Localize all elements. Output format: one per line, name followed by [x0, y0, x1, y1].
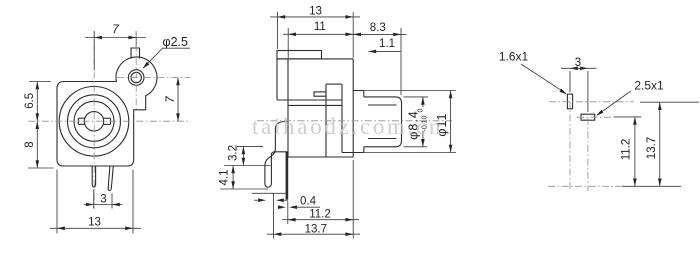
svg-text:0: 0 [417, 109, 424, 113]
dimension 13.7 right arrows [658, 102, 662, 186]
dimension 4.1 dimension line [232, 166, 234, 190]
hole vertical centerline [135, 31, 137, 111]
dimension 8 dimension line [36, 121, 38, 168]
dimension 1.1 arrow [368, 50, 376, 54]
svg-text:13: 13 [309, 5, 322, 17]
footprint bottom centerline [548, 185, 621, 187]
middle view internal contact line upper [277, 99, 342, 101]
svg-text:13: 13 [88, 216, 101, 228]
dimension 11 arrows [288, 33, 353, 37]
middle view pin 1 hook inner [271, 152, 287, 184]
middle view internal wall [287, 59, 289, 157]
dimension 11.2 arrows [288, 218, 353, 222]
dimension 11.2 right dimension line [634, 117, 636, 186]
dimension 13.7 extension line [273, 194, 275, 239]
svg-text:11: 11 [314, 21, 326, 33]
footprint horizontal centerline 1 [549, 101, 634, 103]
dimension 13 extension lines [57, 170, 133, 234]
dimension 13 mid extension lines [277, 12, 353, 58]
middle view top block [277, 51, 322, 59]
left view vertical centerline [93, 31, 95, 209]
hole horizontal centerline [117, 77, 191, 79]
dimension phi8.4 dimension line [422, 97, 424, 147]
dimension 13.7 dimension line [267, 233, 360, 235]
dimension 4.1 extension line [220, 188, 268, 190]
dimension 3.2 arrows [242, 146, 246, 165]
dimension 3 bottom extension lines [94, 190, 112, 209]
dimension 7 extension solid segments [94, 31, 136, 70]
dimension 3.2 dimension line [242, 146, 244, 165]
dimension 0.4 lower arrows [278, 205, 320, 209]
dimension 8.3 extension line [400, 28, 402, 95]
middle view barrel outline [364, 97, 402, 147]
footprint vertical centerline 2 [587, 71, 589, 112]
left view ring circle 3 [74, 101, 114, 141]
middle view horizontal centerline [257, 120, 452, 122]
footprint slot 1.6x1 [567, 94, 572, 109]
dimension 13 dimension line [50, 227, 141, 229]
dimension 11.2 extension lines [288, 160, 353, 239]
dimension 11 dimension line [283, 33, 358, 35]
dimension 6.5 extension line top [29, 81, 51, 83]
left view horizontal centerline [28, 120, 190, 122]
svg-text:3: 3 [575, 57, 581, 69]
dimension 0.4 upper arrows [254, 198, 288, 202]
left view pin 1 (straight) [92, 166, 95, 187]
footprint horizontal centerline 2 [577, 116, 613, 118]
svg-text:13.7: 13.7 [646, 137, 658, 159]
dimension 3 bottom arrows [86, 203, 120, 207]
middle view internal edge horizontal [326, 83, 342, 85]
footprint slot 2.5x1 [581, 114, 595, 120]
svg-text:φ2.5: φ2.5 [163, 35, 189, 49]
dimension phi2.5 arrow [143, 62, 150, 69]
svg-text:11.2: 11.2 [621, 139, 633, 161]
svg-text:3.2: 3.2 [228, 145, 240, 161]
svg-text:8: 8 [24, 141, 36, 147]
middle view pin 1 hook outer [265, 122, 287, 188]
dimension 13 mid dimension line [270, 16, 360, 18]
dimension 13.7 right extension line [640, 101, 699, 103]
middle view internal edge vertical [325, 84, 327, 157]
left view center pin circle [84, 112, 103, 131]
left view body outline [57, 57, 157, 166]
dimension 3 right extension line [569, 71, 571, 92]
left view pin 2 (bent) [108, 166, 113, 190]
dimension 13.7 arrows [274, 232, 354, 236]
label 2.5x1 leader [597, 91, 631, 115]
dimension 3 right arrows [570, 67, 588, 71]
footprint vertical centerline 1 [569, 74, 571, 191]
middle view internal contact line lower [288, 104, 342, 106]
svg-text:1.1: 1.1 [379, 38, 395, 50]
svg-text:0.4: 0.4 [300, 195, 317, 207]
left view top locating tab [131, 48, 140, 59]
dimension 7 top dimension line [85, 37, 146, 39]
middle view side tab [314, 92, 326, 96]
dimension 8 arrows [36, 121, 40, 168]
dimension 3.2 extension lines [224, 146, 271, 165]
left view mounting hole phi2.5 outer [128, 70, 144, 86]
dimension 13.7 right dimension line [659, 102, 661, 186]
dimension 7 right arrows [176, 78, 180, 122]
middle view internal flange line [341, 84, 343, 152]
label 1.6x1 arrow [559, 89, 567, 95]
svg-text:6.5: 6.5 [24, 93, 36, 109]
svg-text:2.5x1: 2.5x1 [634, 78, 664, 92]
dimension phi8.4 extension lines [404, 97, 429, 147]
svg-text:13.7: 13.7 [305, 223, 327, 235]
label 2.5x1 arrow [596, 110, 603, 116]
dimension 11.2 right arrows [633, 117, 637, 186]
svg-text:8.3: 8.3 [370, 22, 386, 34]
left view center slot bar [78, 118, 110, 124]
svg-text:4.1: 4.1 [219, 170, 231, 186]
dimension 13 arrows [57, 227, 133, 231]
svg-text:3: 3 [100, 193, 106, 205]
middle view pin 2 [286, 152, 289, 200]
dimension phi11 extension lines [364, 91, 456, 153]
dimension 1.1 dimension line [368, 50, 401, 52]
dimension 4.1 arrows [231, 166, 235, 190]
dimension phi2.5 leader [143, 48, 190, 68]
dimension 13 mid arrows [277, 15, 353, 19]
dimension 7 right dimension line [177, 78, 179, 122]
dimension 11.2 right extension lines [614, 117, 681, 186]
dimension 11.2 dimension line [282, 219, 359, 221]
svg-text:taihaodz.com.cn: taihaodz.com.cn [252, 114, 441, 139]
dimension 6.5 dimension line [36, 82, 38, 122]
middle view body outline [277, 59, 353, 157]
label 1.6x1 leader [521, 64, 566, 93]
dimension 0.4 reference line [252, 192, 286, 194]
dimension 6.5 arrows [36, 82, 40, 122]
svg-text:11.2: 11.2 [309, 209, 331, 221]
dimension 8 extension line bottom [28, 167, 54, 169]
svg-text:1.6x1: 1.6x1 [499, 49, 529, 63]
left view outer circle [59, 87, 129, 157]
dimension 8.3 dimension line [348, 33, 407, 35]
dimension 3 right dimension line [561, 67, 597, 69]
dimension phi11 dimension line [450, 91, 452, 153]
dimension 7 top arrows [94, 36, 136, 40]
dimension 3 bottom dimension line [84, 204, 123, 206]
dimension 11 extension line [287, 28, 289, 58]
left view mounting hole phi2.5 inner [131, 72, 141, 82]
dimension 8.3 arrows [353, 33, 401, 37]
dimension phi11 arrows [449, 91, 453, 153]
left view ring circle 2 [68, 95, 121, 148]
middle view barrel collar [342, 91, 364, 153]
middle view barrel bore lines [368, 105, 397, 139]
dimension phi8.4 arrows [421, 97, 425, 147]
